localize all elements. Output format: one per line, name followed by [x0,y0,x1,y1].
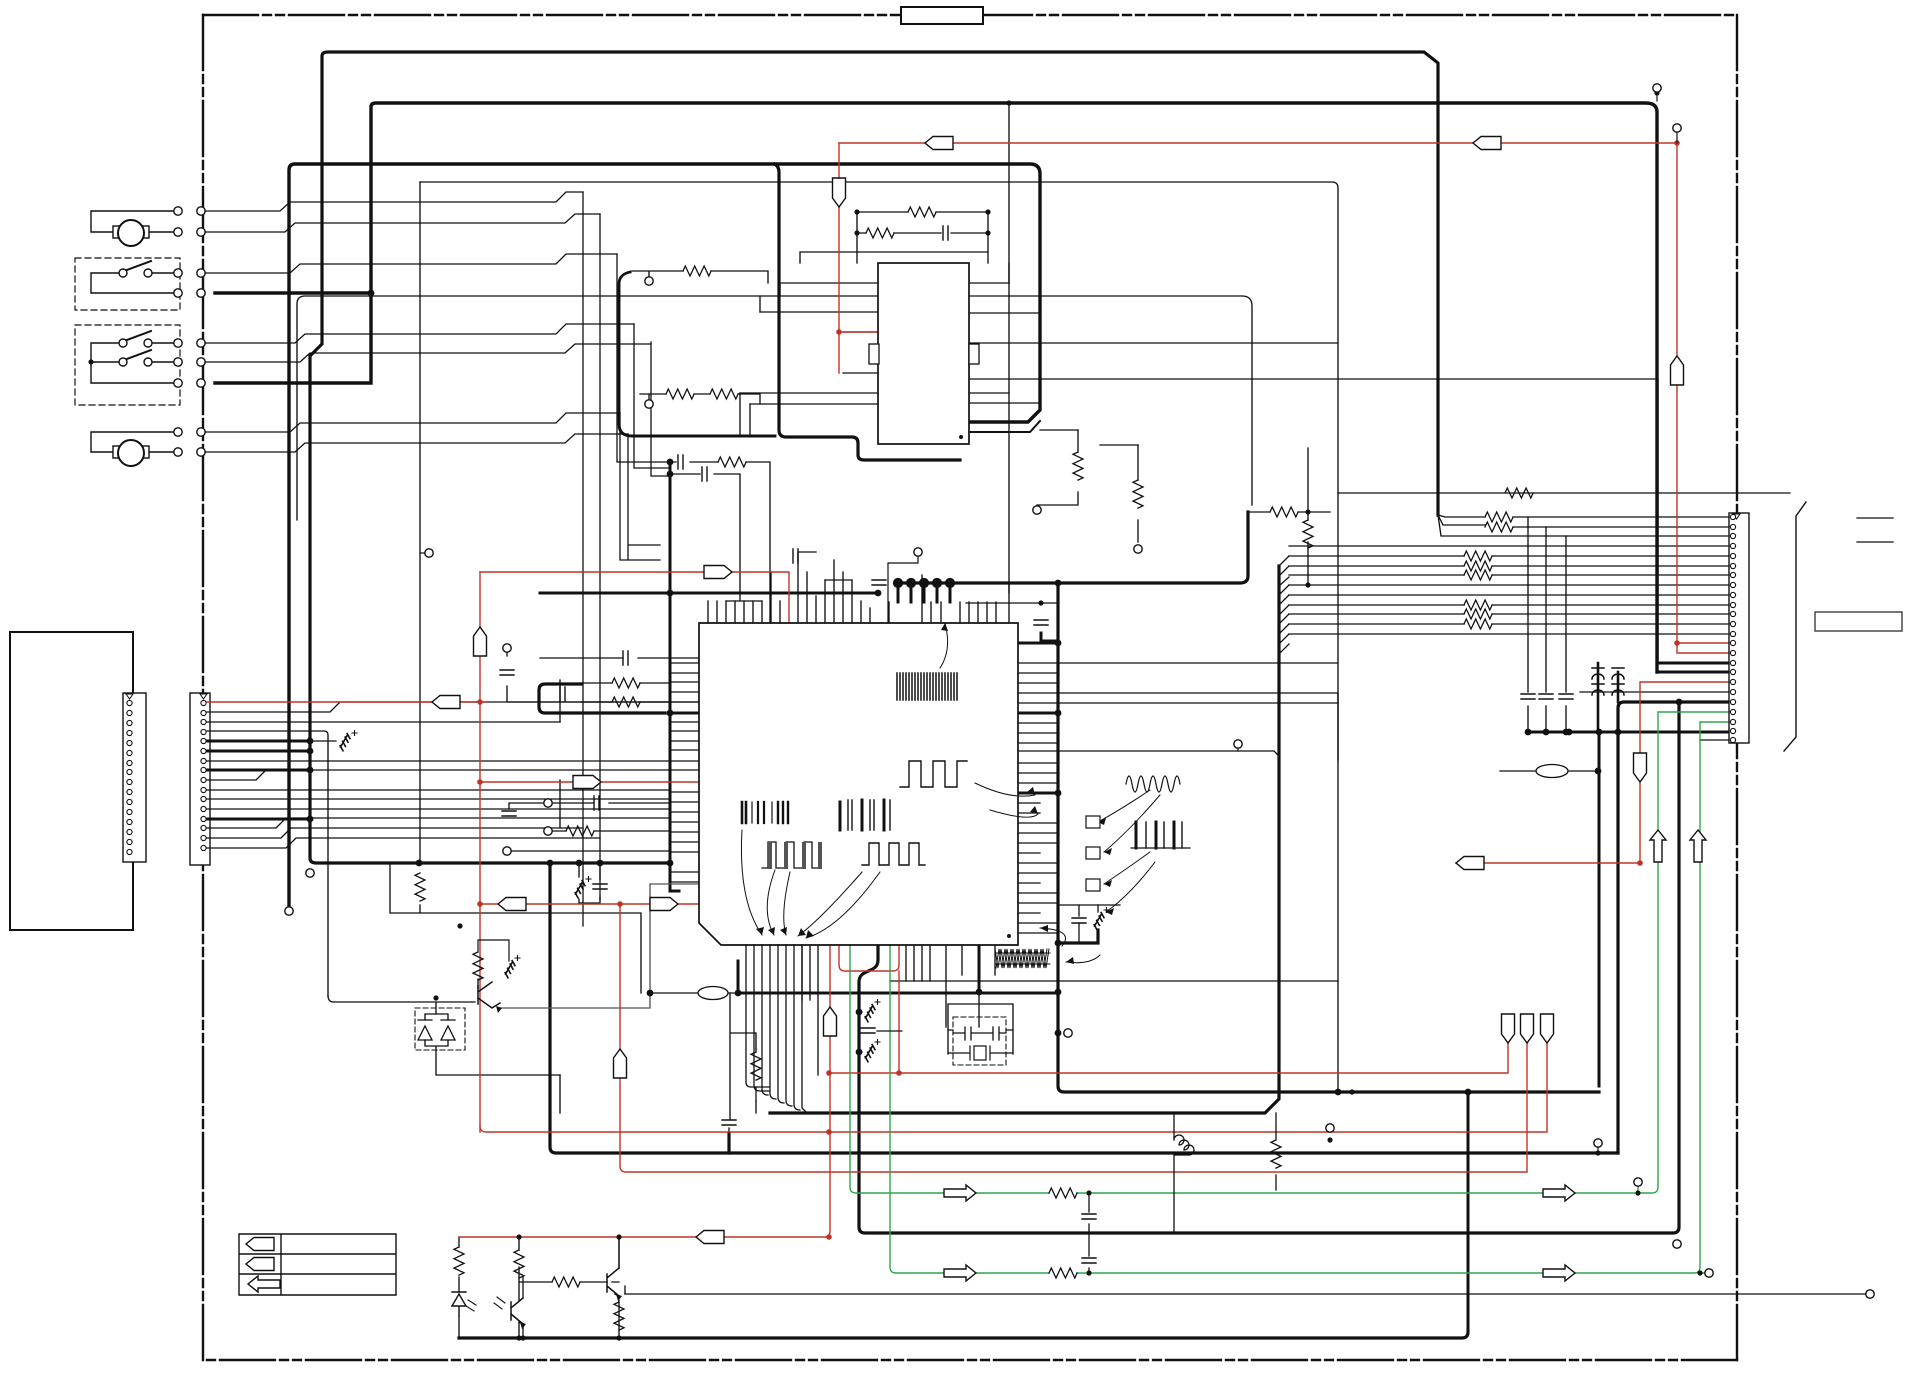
LED circuit verticals [459,1237,625,1338]
ferrite bead [1536,765,1568,778]
hatch block bottom [995,949,1050,968]
transistor Q3 [607,1268,619,1296]
diodes D1 D2 [425,1014,560,1075]
inductor L1 [1174,1113,1194,1233]
wire thick gnd stub near bus [1058,930,1098,943]
comb teeth [898,583,950,602]
wire thick y993 rail [738,992,1058,995]
board border chain line [203,15,1737,1360]
red dots [477,140,1680,1240]
wire x1009 from T2 [1008,103,1010,623]
caps on clock drops [1521,694,1535,699]
stair merge of IC1 bottom pins [746,945,806,1112]
wire CN-B pin lines to IC1 [207,702,699,996]
title box [901,7,983,24]
wire thick left vertical of IC1 [670,462,679,891]
wire thick pins to CN right 16/17 [1657,663,1729,672]
motor M1 terminals [174,207,182,215]
capacitor x729 [722,1120,736,1125]
mechanism block box [10,632,133,930]
caps above IC1 [798,552,852,580]
wire thick IC1 right pins [1018,643,1058,793]
crystal X1 outer [948,992,1013,1054]
wire right pin y663 long [1058,663,1338,760]
wire x420 sense [390,182,641,993]
resistor x1138 [1133,480,1143,508]
resistor vertical x1308 [1303,520,1313,548]
wire thick U2 left loop [619,272,775,436]
cluster caps row above IC1 [670,462,770,623]
red branch x899 [898,971,900,1073]
red net VCC1 from CN-B pin1 [207,572,486,1132]
wire emitter line gray [500,884,699,1008]
transistor Q1 cluster [328,979,478,1014]
wire risers from periphery nets [583,192,670,926]
switch box S1 [75,258,180,310]
wire thick y1092 branch verticals [1467,1092,1470,1332]
LED D3 [452,1292,466,1316]
wire x730 cap res chain [729,993,756,1133]
resistor x756 [751,1052,761,1080]
red drop to LED rail [459,945,830,1237]
wire thick pin stub x738 [737,961,740,993]
wire thick gnd riser right [1598,732,1601,1086]
motor M1 [91,211,174,246]
wire thick CN-B pins [207,741,310,819]
gnd cap pair under T6 [574,881,587,898]
wire thick xtal center [978,945,981,992]
sine glyph right [1126,776,1180,792]
barcode glyph [742,802,788,823]
IC1 left pin stubs [670,663,699,882]
red wire R1 top [839,142,1677,144]
caps above IC1 [872,580,886,585]
resistor R led [454,1247,464,1275]
stair bundle from CN-B [207,770,670,848]
wire y493 to sheet edge [1338,492,1790,494]
caps at IC1 left bus top [678,455,683,469]
phototransistor Q2 [511,1298,523,1324]
green arrows [944,1185,976,1201]
diode pair dashed [415,1008,465,1050]
wire bead line [1500,770,1599,772]
wire CN pin24 [1700,739,1729,741]
waveform comb glyph inside U1 [897,673,957,700]
wire x579/600 gnd caps [579,863,600,903]
crystal X1 dashed box [953,1017,1006,1065]
connector CN-A on mech box [123,693,146,862]
capacitor U2 row2 [943,226,948,240]
U2 left pin wires [740,283,878,404]
switch box S2 [75,325,180,405]
wire thick bottom rail [459,1332,1468,1338]
wire switch S1 to logic [205,254,617,273]
wire thick CN-B bus [310,741,670,863]
wire y831 row [552,830,670,832]
bus fan to CN lines [1279,556,1289,654]
transistor Q1 [478,982,500,1008]
wire y182 [420,182,1338,1092]
U2 row2 feed [640,394,760,404]
motor M2 [91,432,174,466]
wire y296 frame [297,296,1252,520]
curved leaders right glyphs [1098,790,1160,912]
wire rows into IC1 left [560,680,670,828]
wire thick bus T3 [289,164,1040,905]
wire thick cap hook at bus top [1041,633,1058,641]
wire thick cap stub x729 [727,1133,730,1153]
legend table [239,1234,396,1295]
wire motor M1 to logic [205,192,600,232]
red CN pin18 net [1456,682,1729,863]
wire y803 row [509,803,670,809]
wire res row y512 [1248,448,1330,585]
wire thick T2 branch [215,291,371,294]
wire CN pin19 [1580,691,1729,693]
resistors on green [1049,1188,1077,1198]
resistor x1078 [1073,452,1083,480]
clock line cap drops [1528,517,1566,732]
flags red [432,696,460,709]
electrolytic caps pair x1598 [1592,668,1604,684]
wire right edge stubs [1857,518,1893,542]
caps between green lines [1088,1193,1090,1273]
wire thick x1598 upper [1597,663,1600,732]
wire thick CN pin area riser x1679 [859,702,1679,1233]
wire thick x1618 upper [1617,672,1620,702]
green terminal stubs [1638,1186,1703,1273]
red bus y1073 [829,1043,1508,1073]
resistor above Q1 [473,952,483,980]
U2 top feedback [800,212,988,263]
wire thick IC1 right bus [1058,583,1599,1092]
small pin target boxes [1086,816,1100,828]
green net G2 [890,722,1729,1273]
square wave glyph A [900,761,967,787]
red IC1 bottom stubs [839,945,899,971]
green net G1 [850,712,1729,1193]
pulse bars glyph B [840,800,890,830]
wire thick bus T1 [310,52,1438,741]
resistor R base [514,1250,524,1278]
ferrite bead left [698,987,728,1000]
wire thick bottom pin bus T4 [770,566,1279,1113]
red x1677 drop to CN [1677,143,1729,653]
terminal circles misc [306,869,314,877]
wire y683 rows [581,683,670,702]
wire y430 tie [1040,430,1138,445]
wire bead line y993 [650,992,738,994]
U2 row1 feed [632,271,768,283]
resistors U2 rows [683,266,711,276]
resistor below x420 [415,873,425,901]
U2 left maze verticals [740,283,780,436]
red y1132 [480,1043,1547,1132]
comb teeth dots [895,580,954,587]
wire T3 lower chamfer pin [969,421,1040,432]
leader to comb glyph [940,623,948,668]
wire thick rail y593 [540,592,878,595]
connector CN-C right [1729,513,1749,743]
cap and gnd right of bus y905 [1058,904,1120,906]
wire x1658 note [1009,263,1040,313]
resistor y493 [1505,488,1533,498]
bus lines to CN right [1289,546,1729,634]
LED light arrows [466,1300,476,1311]
wire motor M2 to logic [205,413,628,452]
top pin tie bars [726,601,1058,603]
phototransistor light arrows [494,1297,505,1309]
IC1 right thin pins [1018,663,1338,933]
U2 right pin wires [969,283,1658,663]
wire riser x560 low [559,1075,561,1113]
pulse glyph right [1131,822,1190,848]
red drop x620 [620,904,1527,1172]
resistors clock lines [1485,512,1513,522]
wire res hangers mid-right [1037,430,1138,542]
wire y981 long [890,980,1338,982]
electrolytic gnd pair on x859 [864,1005,877,1022]
gray square wave glyph [762,842,821,868]
bracket to next sheet [1784,502,1806,751]
resistor R b2 [552,1277,580,1287]
wire thick C-shape [539,684,665,713]
leader from hatch to pin [1040,928,1066,946]
IC1 bottom short pins [802,945,995,1075]
electrolytic near bus top-right [1034,620,1048,625]
red drop x839 to U2 [839,143,878,373]
gnd cap at Q1 [504,961,517,978]
wire thick gnd drop x550 to rail [550,863,1618,1153]
resistor x1276 [1271,1140,1281,1168]
IC1 top pins [708,560,1009,623]
caps/res mid-left cluster [500,670,514,675]
red riser x1527 flag [1526,1043,1528,1171]
resistors on bus lines to CN [1464,551,1492,561]
wire y658 cap row [507,652,699,702]
IC U1 main servo DSP [699,623,1018,945]
IC U2 driver [878,263,969,444]
wire y1294 long [625,1293,1870,1295]
wire y851 row [511,850,670,852]
right side label box [1815,612,1902,631]
IC1 inner pin marks [702,658,964,840]
wire thick CN pin20 net [1618,702,1729,1153]
wire thick pin13 bus [670,712,699,715]
wire switch S2 rows to logic [205,324,651,362]
electrolytic caps pair x1618 [1612,668,1624,684]
wire thick comb bus over IC1 [898,512,1248,583]
legend arrows [246,1238,274,1251]
square wave glyph C [862,843,925,865]
resistor on pin5 line hatch plus [339,734,352,751]
wire thick cap bus to CN pin23 [1528,731,1729,734]
wire thick bus T2 [215,103,1657,672]
resistor R emitter [614,1302,624,1330]
leader arrows from glyphs to bottom pins [741,830,880,938]
wire thick U2 outer loop [775,164,960,460]
resistor R row y512 [1270,507,1298,517]
clock lines to CN right [1438,515,1729,536]
leaders right side to pins [975,783,1038,817]
connector CN-B board edge [190,693,210,865]
